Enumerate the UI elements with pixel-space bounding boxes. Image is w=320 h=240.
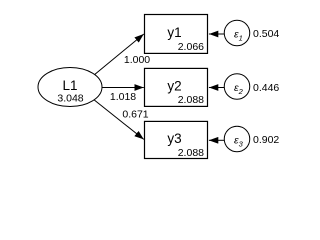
svg-text:2.088: 2.088 xyxy=(178,147,204,159)
error term e2 circle xyxy=(224,74,250,100)
svg-text:3.048: 3.048 xyxy=(57,93,83,105)
svg-text:0.446: 0.446 xyxy=(253,82,279,94)
observed variable y1 box xyxy=(145,15,208,54)
svg-text:y2: y2 xyxy=(167,79,181,94)
wire path e2 to y2 xyxy=(209,87,224,89)
svg-text:y1: y1 xyxy=(167,25,181,40)
error term e1 circle xyxy=(224,20,250,46)
svg-text:1.018: 1.018 xyxy=(110,91,136,103)
svg-text:0.671: 0.671 xyxy=(122,109,148,121)
wire path L1 to y2 xyxy=(100,87,144,89)
latent variable L1 ellipse xyxy=(38,68,102,107)
svg-text:0.902: 0.902 xyxy=(253,134,279,146)
wire path L1 to y1 xyxy=(88,34,144,80)
error term e3 circle xyxy=(224,126,250,152)
wire path e3 to y3 xyxy=(209,139,224,141)
svg-text:0.504: 0.504 xyxy=(253,28,279,40)
wire path e1 to y1 xyxy=(209,33,224,35)
svg-text:L1: L1 xyxy=(62,78,77,93)
svg-text:1.000: 1.000 xyxy=(124,54,150,66)
observed variable y3 box xyxy=(145,121,208,158)
wire path L1 to y3 xyxy=(88,95,144,139)
svg-text:y3: y3 xyxy=(167,131,181,146)
svg-text:2.066: 2.066 xyxy=(178,41,204,53)
observed variable y2 box xyxy=(145,68,208,106)
svg-text:2.088: 2.088 xyxy=(178,94,204,106)
